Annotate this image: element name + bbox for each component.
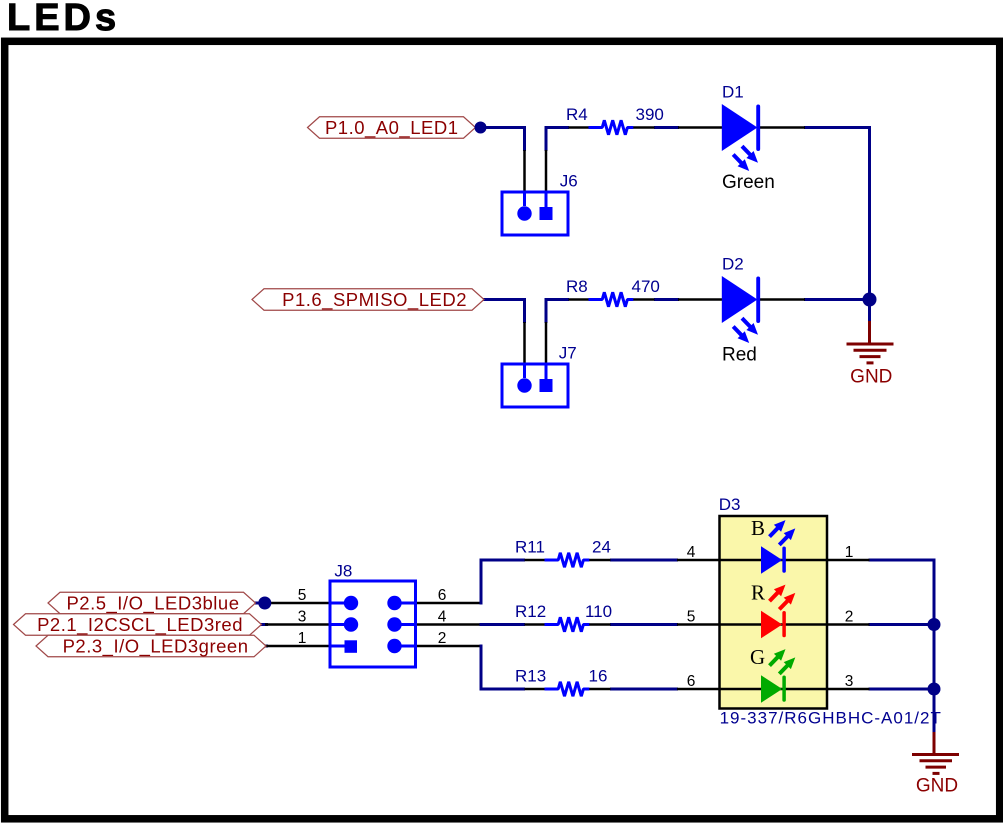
svg-text:R11: R11 <box>515 538 545 557</box>
svg-text:P1.0_A0_LED1: P1.0_A0_LED1 <box>325 117 459 139</box>
svg-text:R12: R12 <box>515 602 546 621</box>
svg-text:GND: GND <box>916 776 958 797</box>
svg-text:LEDs: LEDs <box>7 0 120 39</box>
svg-text:P2.1_I2CSCL_LED3red: P2.1_I2CSCL_LED3red <box>37 614 243 636</box>
svg-text:G: G <box>750 645 765 669</box>
svg-text:R4: R4 <box>566 105 588 124</box>
svg-text:P2.3_I/O_LED3green: P2.3_I/O_LED3green <box>63 636 249 658</box>
svg-text:24: 24 <box>592 538 611 557</box>
svg-text:2: 2 <box>845 609 854 626</box>
svg-text:4: 4 <box>438 609 447 626</box>
svg-text:D2: D2 <box>722 255 744 274</box>
svg-text:R13: R13 <box>515 667 546 686</box>
svg-text:6: 6 <box>438 587 447 604</box>
svg-text:2: 2 <box>438 630 447 647</box>
svg-text:B: B <box>751 516 765 540</box>
svg-text:D3: D3 <box>719 495 741 514</box>
svg-text:P2.5_I/O_LED3blue: P2.5_I/O_LED3blue <box>66 593 239 615</box>
svg-text:5: 5 <box>298 587 307 604</box>
svg-text:470: 470 <box>632 277 660 296</box>
svg-text:J6: J6 <box>560 172 578 191</box>
svg-text:3: 3 <box>298 609 307 626</box>
svg-text:390: 390 <box>636 105 664 124</box>
svg-text:16: 16 <box>589 667 608 686</box>
svg-text:R: R <box>751 581 765 605</box>
svg-text:J7: J7 <box>559 344 577 363</box>
svg-text:D1: D1 <box>722 83 744 102</box>
svg-text:1: 1 <box>845 544 854 561</box>
svg-text:19-337/R6GHBHC-A01/2T: 19-337/R6GHBHC-A01/2T <box>720 709 942 728</box>
svg-text:1: 1 <box>298 630 307 647</box>
svg-text:J8: J8 <box>334 562 352 581</box>
svg-text:GND: GND <box>850 367 892 388</box>
svg-text:P1.6_SPMISO_LED2: P1.6_SPMISO_LED2 <box>282 289 467 311</box>
svg-text:4: 4 <box>687 544 696 561</box>
svg-text:110: 110 <box>585 602 612 621</box>
svg-text:3: 3 <box>845 673 854 690</box>
svg-text:Green: Green <box>722 172 775 193</box>
svg-text:5: 5 <box>687 609 696 626</box>
svg-text:R8: R8 <box>566 277 588 296</box>
svg-text:Red: Red <box>722 345 757 366</box>
svg-text:6: 6 <box>687 673 696 690</box>
